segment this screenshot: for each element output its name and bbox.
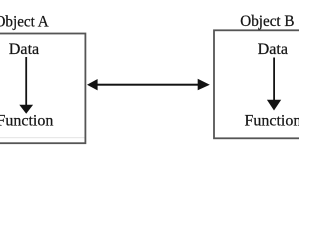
svg-text:Data: Data	[258, 41, 288, 58]
svg-text:Data: Data	[9, 41, 39, 58]
svg-text:Function: Function	[245, 113, 300, 130]
svg-text:Function: Function	[0, 113, 53, 130]
double-headed arrow between Object A and Object B	[87, 79, 210, 91]
svg-text:Object B: Object B	[240, 13, 294, 30]
box Object A	[0, 34, 85, 144]
arrow Data to Function (Object B)	[267, 58, 281, 111]
box Object B	[214, 30, 320, 138]
faint ghost line above bottom border of box Object A	[0, 137, 85, 138]
arrow Data to Function (Object A)	[19, 57, 33, 114]
svg-text:Object A: Object A	[0, 13, 49, 30]
